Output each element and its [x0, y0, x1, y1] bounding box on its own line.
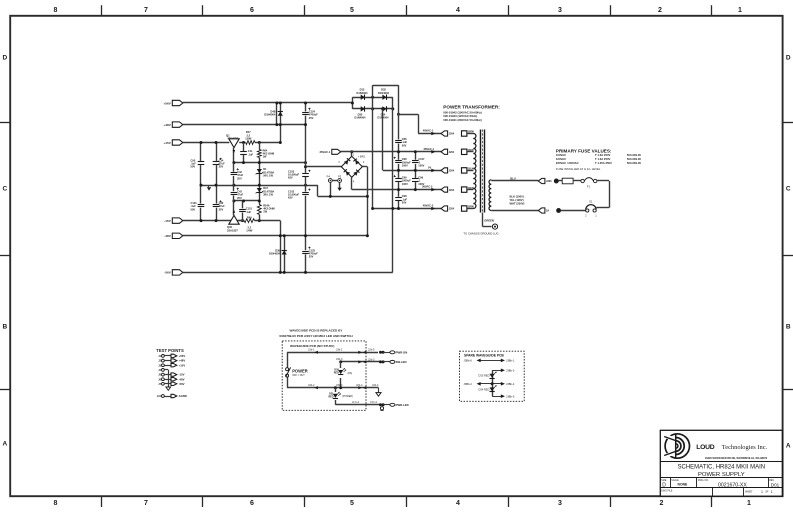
- connector +15V: [163, 140, 182, 145]
- label D36: [334, 369, 340, 375]
- svg-text:.1uF: .1uF: [246, 210, 252, 214]
- label P4: [327, 175, 331, 179]
- title block divider 1: [660, 461, 782, 463]
- wire primary top BLU: [491, 180, 538, 182]
- spare waveguide dashed box: [460, 351, 525, 401]
- waveguide PCB dashed box: [282, 341, 366, 410]
- ground arrow P3: [337, 188, 341, 191]
- wire bridge bottom stub: [351, 177, 353, 189]
- svg-text:0V: 0V: [428, 166, 431, 170]
- transformer pin 36VAC-2: [462, 187, 474, 192]
- junction dots D39: [283, 234, 286, 274]
- junction dots quad: [351, 96, 400, 116]
- svg-text:100V: 100V: [402, 182, 408, 186]
- value sheet total: [771, 490, 773, 494]
- connector J204 pin 0V: [441, 168, 455, 173]
- bridge pin 2: [363, 161, 365, 164]
- label BR1: [358, 155, 366, 159]
- capacitor C66: [395, 139, 402, 143]
- svg-text:S1: S1: [589, 200, 593, 204]
- title block address: [705, 457, 768, 460]
- junction dots -15V rail: [200, 219, 261, 222]
- connector J204 pin 36VAC-1: [441, 149, 455, 154]
- capacitor C124: [302, 108, 311, 116]
- label J3Bb-5: [506, 394, 515, 398]
- svg-text:2: 2: [658, 7, 662, 14]
- svg-text:P4: P4: [327, 175, 331, 179]
- header SCALE: [671, 479, 679, 482]
- header SHEET: [745, 492, 753, 494]
- connector J204 pin 48VAC-1: [441, 131, 455, 136]
- label 36VAC-2 net: [422, 185, 433, 189]
- wire waveguide row1: [287, 352, 378, 354]
- svg-text:J2b-1: J2b-1: [308, 348, 315, 352]
- zener D47: [256, 188, 263, 193]
- label C98: [402, 194, 408, 204]
- connector J205 WHT: [538, 208, 549, 213]
- label J3Bb-3: [506, 368, 515, 372]
- wire 48VAC-1 tap: [399, 114, 419, 116]
- svg-text:D1N4004: D1N4004: [357, 91, 369, 95]
- svg-text:WAVEGUIDE PCB (NO STUFF): WAVEGUIDE PCB (NO STUFF): [290, 344, 334, 348]
- wire mid ground rail: [201, 185, 318, 187]
- pad P3: [338, 179, 342, 183]
- label C42: [237, 170, 243, 180]
- label R64: [263, 148, 275, 158]
- wire bridge output drop: [367, 167, 369, 236]
- test point J4: [158, 369, 170, 391]
- wire C42/C43 column: [233, 163, 235, 216]
- capacitor C34: [212, 158, 221, 165]
- svg-text:50V: 50V: [402, 201, 407, 205]
- test point J7: [158, 382, 184, 386]
- label S1: [589, 200, 593, 204]
- label D34: [378, 112, 390, 119]
- label D33: [479, 374, 490, 378]
- label J3Bb-2: [464, 382, 473, 386]
- label C124: [309, 110, 318, 120]
- svg-text:P3: P3: [338, 175, 342, 179]
- label D39: [269, 248, 281, 255]
- junction dots parallel stub: [275, 102, 278, 127]
- svg-text:PRIMARY FUSE VALUES:: PRIMARY FUSE VALUES:: [556, 148, 612, 153]
- svg-text:1: 1: [738, 7, 742, 14]
- wire quad top link: [373, 85, 399, 87]
- junction dots bus lower: [232, 200, 260, 203]
- svg-text:C11: C11: [248, 149, 253, 153]
- label J3Bb-1: [506, 359, 515, 363]
- arrows row2 edge: [358, 360, 366, 363]
- capacitor C95: [197, 161, 204, 165]
- label 48VAC-2 net: [423, 204, 434, 208]
- svg-text:25V: 25V: [219, 207, 224, 211]
- svg-text:J204: J204: [449, 189, 455, 192]
- wire long vertical node: [392, 97, 394, 272]
- waveguide note line2: [279, 334, 353, 338]
- wire bridge left corner: [306, 166, 342, 168]
- svg-text:100VAC: 100VAC: [556, 153, 566, 157]
- title block bottom dividers: [713, 488, 744, 496]
- svg-text:16220 WOOD-RED RD NE, WOODINVI: 16220 WOOD-RED RD NE, WOODINVILLE, WA 98…: [705, 457, 768, 460]
- test point J10: [157, 394, 187, 398]
- svg-text:J3Bb-5: J3Bb-5: [506, 394, 515, 398]
- connector J204 pin 36VAC-2: [441, 187, 455, 192]
- junction dots filter column: [304, 102, 307, 274]
- svg-text:-48V: -48V: [179, 377, 185, 381]
- svg-text:230VAC / 240VAC: 230VAC / 240VAC: [556, 161, 579, 165]
- wire fuse loop drop: [609, 181, 611, 208]
- junction dots cap column B: [414, 150, 417, 191]
- bridge minus: [362, 163, 364, 167]
- wire node column upper: [280, 103, 282, 143]
- frame column labels bottom: [54, 500, 752, 507]
- wire quad drop A: [372, 85, 374, 208]
- wire waveguide row4: [335, 404, 381, 406]
- svg-text:48VAC-2: 48VAC-2: [423, 204, 434, 208]
- connector 36VAC-1 left: [320, 149, 341, 154]
- wire C151 column: [242, 201, 244, 221]
- svg-text:PWR-ON: PWR-ON: [396, 351, 408, 355]
- wire parallel stub upper: [276, 103, 278, 125]
- wire transformer pin 36VAC-2: [467, 189, 474, 191]
- svg-text:PWR-LED: PWR-LED: [396, 403, 409, 407]
- label 36VAC-1 net: [424, 147, 435, 151]
- svg-text:6: 6: [250, 500, 254, 507]
- test point J1: [158, 354, 185, 358]
- junction dots mid rail: [200, 184, 308, 187]
- connector -15V: [164, 218, 183, 223]
- capacitor C68: [394, 157, 402, 164]
- wire D31 column upper: [335, 388, 337, 392]
- svg-text:RED: RED: [328, 395, 333, 398]
- label J3b-3: [336, 357, 343, 361]
- transformer T1 core: [481, 130, 485, 213]
- wire transformer green lead: [482, 213, 484, 227]
- capacitor C107: [412, 160, 419, 164]
- capacitor C102: [302, 189, 311, 196]
- svg-text:DWG. NO.: DWG. NO.: [698, 480, 709, 482]
- junction dots bus upper: [232, 161, 307, 164]
- wire transformer pin 36VAC-1: [467, 151, 474, 153]
- label J2b-2: [308, 383, 315, 387]
- svg-text:63V: 63V: [288, 196, 293, 200]
- spare row3 wire: [477, 382, 505, 386]
- LED D33: [490, 372, 497, 379]
- label J3b-2: [370, 400, 378, 404]
- svg-text:T 1.6A 250V: T 1.6A 250V: [595, 153, 611, 157]
- label R49 value: [246, 225, 253, 232]
- svg-text:8: 8: [54, 500, 58, 507]
- svg-text:.1uF: .1uF: [248, 153, 254, 157]
- svg-text:0030789-00 PCB ASSY HR MK2 LED: 0030789-00 PCB ASSY HR MK2 LED AND SWITC…: [279, 334, 353, 338]
- value dwg no: [718, 482, 747, 488]
- svg-text:POWER: POWER: [292, 368, 308, 373]
- test point J6: [158, 377, 184, 381]
- label D31: [328, 392, 334, 398]
- svg-text:50V: 50V: [402, 143, 407, 147]
- capacitor C101: [197, 204, 204, 208]
- switch S1: [586, 205, 597, 212]
- svg-text:(POWER): (POWER): [342, 395, 353, 398]
- label Q46: [227, 225, 238, 232]
- chassis ground lug: [492, 224, 497, 229]
- wire bus upper: [234, 162, 306, 164]
- svg-text:SPARE WAVEGUIDE PCB: SPARE WAVEGUIDE PCB: [464, 353, 504, 357]
- capacitor C42: [230, 168, 239, 176]
- wire -48V rail: [183, 235, 368, 237]
- label TO CHASSIS GROUND LUG: [463, 231, 498, 235]
- svg-text:1: 1: [747, 500, 751, 507]
- label C151: [246, 207, 253, 214]
- label C95: [191, 158, 197, 168]
- wire D39 column: [284, 236, 286, 273]
- spare center column: [492, 370, 494, 396]
- svg-text:-48V: -48V: [164, 234, 171, 238]
- label C43: [237, 190, 243, 200]
- title block outer box: [660, 430, 782, 496]
- arrow 48VAC-1: [431, 132, 435, 136]
- svg-text:SHEET: SHEET: [745, 492, 753, 494]
- svg-text:100V: 100V: [402, 164, 408, 168]
- wire D36 column lower: [340, 378, 342, 388]
- wire Q1 emitter column: [233, 148, 235, 163]
- junction dots cap column A: [397, 150, 400, 210]
- label C32: [219, 201, 225, 211]
- wire lower link: [318, 196, 368, 198]
- terminal PWR-ON: [379, 351, 407, 355]
- label GREEN: [484, 218, 494, 222]
- label J3Bb-6: [464, 359, 473, 363]
- svg-text:+15V: +15V: [163, 141, 171, 145]
- label R49: [247, 215, 252, 219]
- svg-text:C: C: [2, 185, 7, 192]
- capacitor C123: [302, 247, 311, 255]
- pad switch row: [557, 208, 561, 212]
- test point J3: [158, 363, 185, 367]
- svg-text:25V: 25V: [237, 196, 242, 200]
- primary fuse values table: [556, 153, 642, 165]
- svg-text:J1: J1: [158, 355, 161, 358]
- svg-text:1: 1: [771, 490, 773, 494]
- label J3b-4: [336, 383, 343, 387]
- svg-text:63V: 63V: [288, 176, 293, 180]
- svg-text:TO CHASSIS GROUND LUG: TO CHASSIS GROUND LUG: [463, 231, 498, 235]
- svg-text:120VAC: 120VAC: [556, 157, 566, 161]
- svg-text:J3: J3: [158, 364, 161, 367]
- test point J2: [158, 359, 185, 363]
- zener D1: [256, 169, 263, 174]
- label WAVEGUIDE PCB NO STUFF: [290, 344, 334, 348]
- label R246: [263, 203, 275, 213]
- wire waveguide left leg upper: [287, 352, 289, 367]
- wire quad top row: [352, 97, 392, 99]
- svg-text:D1N4004: D1N4004: [269, 252, 281, 256]
- wire 48VAC-1 riser: [418, 114, 420, 133]
- label TEST POINTS: [156, 348, 184, 353]
- wire +56V rail: [183, 102, 352, 104]
- label C123: [309, 248, 318, 258]
- arrow 36VAC-1: [431, 150, 435, 154]
- arrows row1 edge: [358, 351, 366, 354]
- svg-text:J7: J7: [158, 383, 161, 386]
- label D13: [357, 88, 369, 95]
- label J2b-4b: [372, 383, 379, 387]
- wire quad left join: [352, 97, 354, 109]
- ground drop row3: [376, 388, 381, 397]
- svg-text:1: 1: [595, 215, 597, 217]
- svg-text:D1N4004: D1N4004: [355, 116, 367, 120]
- value sheet of: [765, 492, 769, 494]
- svg-text:J3Bb-1: J3Bb-1: [506, 359, 515, 363]
- svg-text:+56V: +56V: [179, 354, 186, 358]
- wire R47 to node: [255, 142, 280, 144]
- svg-text:J204: J204: [449, 170, 455, 173]
- label D35: [355, 112, 367, 119]
- svg-text:A: A: [2, 440, 7, 447]
- bridge pin 1: [353, 153, 355, 156]
- svg-text:SCHEMATIC, HR824 MKII MAIN: SCHEMATIC, HR824 MKII MAIN: [678, 464, 766, 470]
- label fuse installed note: [556, 167, 601, 171]
- connector J204 pin 48VAC-2: [441, 206, 455, 211]
- label F1: [587, 185, 591, 189]
- svg-text:2: 2: [660, 500, 664, 507]
- value size D: [662, 483, 666, 489]
- transformer T1 secondary winding: [473, 134, 476, 209]
- svg-text:36VAC-1: 36VAC-1: [320, 150, 331, 154]
- svg-text:J4: J4: [158, 369, 161, 372]
- spare row4 wire: [492, 394, 505, 398]
- label Q1: [226, 133, 230, 137]
- wire transformer pin 0V: [467, 170, 474, 172]
- svg-text:-15V: -15V: [179, 373, 185, 377]
- svg-text:J3Bb-3: J3Bb-3: [506, 368, 515, 372]
- svg-text:J3Bb-6: J3Bb-6: [464, 359, 473, 363]
- label J2b-4: [356, 383, 363, 387]
- svg-text:500-039-00: 500-039-00: [627, 157, 642, 161]
- svg-text:100V: 100V: [418, 164, 424, 168]
- logo LOUD Technologies: [663, 434, 689, 458]
- switch pin 1: [595, 215, 597, 217]
- capacitor C103: [302, 170, 311, 177]
- LED D31: [333, 392, 341, 399]
- svg-text:2SA1837: 2SA1837: [227, 228, 238, 232]
- svg-text:J10: J10: [157, 395, 162, 398]
- svg-text:D1N4004: D1N4004: [378, 116, 390, 120]
- svg-text:+48V: +48V: [163, 123, 171, 127]
- svg-text:4: 4: [456, 7, 460, 14]
- arrow 36VAC-2: [431, 188, 435, 192]
- label R47: [245, 130, 252, 140]
- arrow 0V: [431, 169, 435, 173]
- wire quad bottom row: [352, 108, 392, 110]
- wire bridge right corner: [362, 166, 367, 168]
- svg-text:36VAC-1: 36VAC-1: [424, 147, 435, 151]
- svg-text:J3b-1: J3b-1: [336, 348, 343, 352]
- capacitor C99: [412, 178, 419, 182]
- wire Q46 collector to R49: [239, 220, 244, 222]
- svg-text:J3b-4: J3b-4: [336, 383, 343, 387]
- label C101: [191, 201, 198, 211]
- svg-text:25V: 25V: [309, 116, 314, 120]
- svg-text:NONE: NONE: [678, 483, 689, 487]
- wire mid rail drop: [317, 185, 319, 196]
- svg-text:56V, 1W: 56V, 1W: [263, 174, 273, 178]
- wire waveguide left leg lower: [287, 377, 289, 387]
- svg-text:1: 1: [761, 490, 763, 494]
- svg-text:2: 2: [585, 215, 587, 217]
- wire 48VAC-1 row: [418, 133, 441, 135]
- frame row labels right: [786, 54, 791, 449]
- svg-text:+ BR1: + BR1: [358, 155, 366, 159]
- logo text Technologies Inc: [722, 444, 768, 451]
- header REV: [769, 480, 775, 482]
- svg-text:J3b-3: J3b-3: [336, 357, 343, 361]
- transformer pin 48VAC-2: [462, 206, 474, 212]
- capacitor C43: [230, 188, 239, 196]
- bridge rectifier BR1: [341, 156, 362, 177]
- junction dots row3: [334, 386, 342, 389]
- svg-text:1/2W: 1/2W: [245, 137, 252, 141]
- svg-text:DWG FILE: DWG FILE: [661, 491, 673, 493]
- title line 1: [678, 464, 766, 470]
- label J2b-3: [368, 357, 375, 361]
- label primary taps: [510, 194, 525, 205]
- svg-text:F1: F1: [587, 185, 591, 189]
- logo text LOUD: [696, 444, 714, 451]
- wire holder to fuse: [573, 180, 581, 182]
- value scale NONE: [678, 483, 689, 487]
- wire pad to holder: [558, 180, 562, 182]
- label J3b-1: [336, 348, 343, 352]
- svg-text:J6: J6: [158, 378, 161, 381]
- value sheet: [761, 490, 763, 494]
- header DWG FILE: [661, 491, 673, 493]
- fuse F1: [581, 178, 597, 183]
- svg-text:7: 7: [144, 7, 148, 14]
- svg-text:36V, 1W: 36V, 1W: [263, 193, 273, 197]
- svg-text:Technologies Inc.: Technologies Inc.: [722, 444, 768, 451]
- label J3Bb-4: [506, 382, 515, 386]
- label OFF-ON: [292, 374, 305, 377]
- junction dot -48V node: [279, 234, 282, 274]
- svg-text:WAVEGUIDE PCB IS REPLACED BY: WAVEGUIDE PCB IS REPLACED BY: [290, 328, 344, 332]
- frame row labels left: [2, 54, 7, 447]
- emitter arrow Q46: [233, 210, 236, 213]
- svg-text:D1N4004: D1N4004: [378, 91, 390, 95]
- svg-text:-56V: -56V: [179, 382, 185, 386]
- arrow row3 left: [314, 386, 318, 389]
- svg-text:+48V: +48V: [179, 359, 186, 363]
- title block divider 3: [660, 487, 782, 489]
- label D36 alt: [348, 372, 353, 375]
- label C107: [418, 157, 425, 167]
- svg-text:1: 1: [353, 153, 355, 156]
- svg-text:J5: J5: [158, 374, 161, 377]
- junction dots +15V rail: [200, 141, 218, 144]
- label BLU: [510, 177, 516, 181]
- svg-text:LOUD: LOUD: [696, 444, 714, 451]
- wire P4-P3: [332, 180, 338, 182]
- svg-text:RED: RED: [334, 372, 339, 375]
- svg-text:50V: 50V: [191, 165, 196, 169]
- svg-text:D1N4004: D1N4004: [264, 113, 276, 117]
- fuse holder: [562, 178, 573, 184]
- label D32: [378, 88, 390, 95]
- svg-text:7: 7: [144, 500, 148, 507]
- label D31 POWER: [342, 395, 353, 398]
- header DWG NO: [698, 480, 709, 482]
- diode D35: [361, 106, 365, 111]
